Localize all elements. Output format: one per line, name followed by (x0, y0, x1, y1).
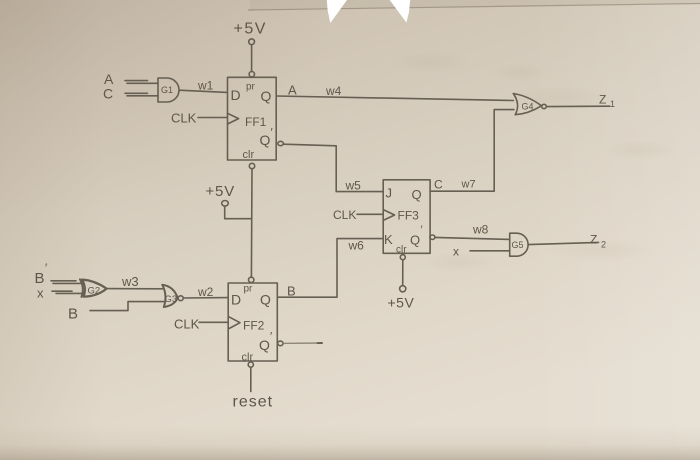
svg-text:w3: w3 (121, 274, 139, 289)
wire X input to G5 (470, 250, 510, 252)
svg-text:w6: w6 (348, 239, 365, 253)
G4 output bubble (542, 104, 547, 108)
wire Z1 output (547, 105, 610, 107)
svg-text:reset: reset (233, 394, 274, 411)
FF2 pin label Q (260, 292, 271, 308)
label G5 (512, 240, 524, 250)
FF3 Q-bar bubble (430, 235, 435, 239)
wire w6 (FF2 Q to FF3 K) (278, 239, 384, 298)
flip-flop FF3 box (383, 180, 430, 254)
svg-text:x: x (37, 286, 44, 301)
label G3 (165, 294, 178, 305)
label G1 (161, 85, 173, 95)
svg-text:Q: Q (260, 132, 271, 148)
label w2 (197, 285, 214, 299)
svg-text:K: K (384, 232, 393, 247)
svg-text:w2: w2 (197, 285, 214, 299)
FF1 pin label D (231, 87, 241, 103)
FF2 pin label Q-bar (259, 330, 273, 354)
G3 output bubble (178, 296, 183, 301)
FF3 clock triangle (383, 210, 394, 221)
svg-text:+5V: +5V (234, 21, 267, 38)
svg-text:G3: G3 (165, 294, 178, 305)
label X (G5 input) (453, 245, 459, 259)
FF3 pin label J (386, 186, 393, 201)
svg-text:w4: w4 (325, 84, 342, 98)
+5V terminal middle (222, 201, 229, 207)
label w5 (345, 179, 362, 193)
label +5V middle (206, 183, 236, 200)
xor-gate G2 body (82, 280, 107, 297)
FF3 clear terminal (400, 255, 405, 260)
svg-text:Q: Q (259, 337, 270, 353)
label B (node) (287, 284, 296, 299)
svg-text:+5V: +5V (388, 295, 415, 311)
svg-text:2: 2 (601, 240, 606, 250)
svg-text:1: 1 (610, 99, 615, 109)
FF2 pin label clr (242, 352, 254, 364)
+5V terminal below FF3 (400, 286, 406, 292)
svg-text:w8: w8 (472, 223, 489, 237)
wire CLK to FF1 (198, 117, 227, 119)
svg-text:clr: clr (243, 149, 255, 161)
svg-text:G1: G1 (161, 85, 173, 95)
svg-text:B: B (68, 306, 78, 323)
top paper edge line (248, 4, 700, 11)
FF2 pin label pr (244, 284, 254, 295)
wire FF1 clr to FF2 pr (+5V rail) (250, 169, 253, 277)
FF1 preset terminal (249, 72, 254, 77)
wire FF3 clr down (402, 260, 404, 286)
svg-text:pr: pr (246, 82, 256, 93)
FF1 pin label Q-bar (260, 126, 274, 149)
wire w7 vertical to G4 (430, 110, 514, 192)
faint ghost marks (bleed-through) (390, 51, 676, 272)
svg-text:w5: w5 (345, 179, 362, 193)
FF3 pin label K (384, 232, 393, 247)
wire +5V to FF1 preset (251, 45, 253, 72)
flip-flop FF1 box (228, 77, 277, 160)
wire FF2 Q-bar dangling with arrowhead (285, 342, 323, 344)
label Z1 (599, 93, 615, 110)
svg-text:CLK: CLK (333, 208, 356, 222)
label w3 (121, 274, 139, 289)
svg-text:D: D (231, 87, 241, 103)
label G4 (522, 102, 534, 112)
label w1 (197, 79, 214, 93)
FF2 Q-bar bubble (278, 341, 283, 346)
label FF3 (398, 209, 420, 223)
label C (input) (103, 86, 113, 102)
svg-text:CLK: CLK (174, 317, 200, 332)
wire CLK to FF3 (357, 213, 383, 215)
FF1 pin label pr (246, 82, 256, 93)
white star cutout left leg (327, 0, 347, 23)
+5V terminal top (249, 39, 255, 45)
nor-gate G3 (162, 285, 177, 307)
FF1 Q-bar bubble (278, 141, 284, 145)
wire input B (stepped) (90, 302, 164, 311)
label +5V below FF3 (388, 295, 415, 311)
svg-text:Q: Q (412, 187, 422, 202)
label CLK (FF3) (333, 208, 356, 222)
label reset (233, 394, 274, 411)
FF2 clear terminal (248, 362, 253, 367)
FF1 clear terminal (249, 163, 254, 168)
FF3 pin label Q-bar (410, 224, 423, 248)
label w8 (472, 223, 489, 237)
flip-flop FF2 box (228, 283, 277, 361)
wire w4 (FF1 Q to G4) (276, 96, 513, 101)
svg-text:FF2: FF2 (243, 319, 265, 333)
FF3 pin label Q (412, 187, 422, 202)
svg-text:Q: Q (260, 292, 271, 308)
svg-text:FF1: FF1 (245, 115, 267, 129)
svg-text:C: C (103, 86, 113, 102)
FF3 pin label clr (396, 245, 407, 256)
wire w2 (184, 297, 229, 299)
FF2 preset terminal (249, 277, 254, 282)
and-gate G1 (158, 78, 179, 102)
label +5V top (234, 21, 267, 38)
svg-text:C: C (434, 178, 443, 192)
svg-text:G2: G2 (88, 286, 101, 297)
svg-text:Q: Q (261, 88, 272, 104)
wire w1 (179, 90, 227, 92)
wire w5 (FF1 Q-bar to FF3 J) (284, 144, 383, 191)
svg-text:w1: w1 (197, 79, 214, 93)
label CLK (FF2) (174, 317, 200, 332)
svg-text:pr: pr (244, 284, 254, 295)
FF1 clock triangle (228, 113, 239, 124)
wire CLK to FF2 (199, 321, 228, 323)
svg-text:FF3: FF3 (398, 209, 420, 223)
svg-text:w7: w7 (461, 179, 476, 191)
svg-text:A: A (288, 83, 297, 98)
wire input X (52, 291, 84, 293)
svg-text:Z: Z (590, 233, 597, 247)
wire reset to FF2 clr (250, 367, 252, 391)
svg-text:B: B (35, 270, 45, 287)
label C (node) (434, 178, 443, 192)
svg-text:B: B (287, 284, 296, 299)
FF1 pin label clr (243, 149, 255, 161)
label w7 (461, 179, 476, 191)
FF2 pin label D (231, 292, 241, 308)
FF1 pin label Q (261, 88, 272, 104)
svg-text:′: ′ (421, 224, 423, 236)
svg-text:clr: clr (396, 245, 407, 256)
label FF1 (245, 115, 267, 129)
svg-text:Q: Q (410, 233, 420, 248)
label FF2 (243, 319, 265, 333)
nor-gate G4 (513, 94, 541, 115)
xor-gate G2 second back arc (80, 279, 83, 297)
label Z2 (590, 233, 606, 250)
label w4 (325, 84, 342, 98)
svg-text:+5V: +5V (206, 183, 236, 200)
label w6 (348, 239, 365, 253)
label G2 (88, 286, 101, 297)
label A (node) (288, 83, 297, 98)
white star cutout right leg (390, 0, 411, 23)
svg-text:J: J (386, 186, 393, 201)
svg-text:G5: G5 (512, 240, 524, 250)
svg-text:clr: clr (242, 352, 254, 364)
label B-prime (input) (35, 261, 49, 287)
wire input B-prime (51, 281, 84, 284)
label A (input) (104, 71, 114, 87)
svg-text:x: x (453, 245, 459, 259)
FF2 clock triangle (228, 316, 240, 329)
wire w8 (FF3 Q-bar to G5) (435, 237, 509, 239)
svg-text:Z: Z (599, 93, 606, 107)
wire input A (125, 81, 158, 84)
wire input C (125, 93, 158, 96)
wire +5V tap to rail (225, 206, 252, 218)
svg-text:CLK: CLK (171, 111, 197, 126)
label X (input) (37, 286, 44, 301)
and-gate G5 (510, 233, 528, 256)
label CLK (FF1) (171, 111, 197, 126)
svg-text:G4: G4 (522, 102, 534, 112)
label B (input) (68, 306, 78, 323)
svg-text:D: D (231, 292, 241, 308)
wire Z2 output (528, 242, 598, 244)
wire w3 (106, 288, 162, 290)
